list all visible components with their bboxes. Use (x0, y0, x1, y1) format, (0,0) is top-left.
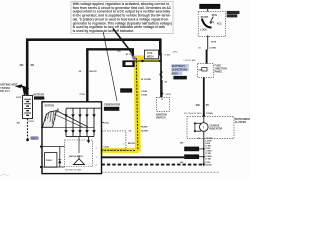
leader line thin to generator (103, 31, 117, 101)
node dot right of mega fuse (159, 60, 161, 62)
svg-text:S878: S878 (211, 42, 217, 44)
svg-text:57 BK: 57 BK (205, 159, 211, 161)
rectifier diode columns (66, 108, 94, 136)
svg-text:BK/OR: BK/OR (128, 143, 135, 145)
pin labels under lamp (198, 138, 213, 140)
svg-text:RD: RD (31, 64, 35, 67)
regulator transistor (74, 159, 85, 165)
node on generator left edge (41, 126, 43, 128)
labels right of black box (141, 90, 148, 96)
svg-text:CHARGE: CHARGE (210, 125, 220, 128)
charge indicator lamp (194, 117, 208, 139)
stub box1 to wire (199, 148, 204, 150)
svg-text:SWITCH: SWITCH (227, 15, 237, 18)
svg-text:BK/OR: BK/OR (90, 71, 97, 73)
svg-text:AT 301: AT 301 (126, 53, 133, 56)
rectifier mid line (43, 126, 95, 128)
fusible link thick segment (206, 50, 208, 64)
svg-text:C1048: C1048 (141, 93, 148, 96)
generator black ref box (104, 107, 119, 111)
ignition switch bottom connector (207, 35, 209, 38)
battery (23, 95, 33, 118)
svg-text:C158: C158 (104, 123, 110, 125)
wire from hot box to ignition switch (207, 9, 209, 12)
svg-text:C 101: C 101 (164, 55, 170, 57)
heavy battery cable A (battery to junction box) (27, 40, 160, 95)
svg-text:GROUND IS CASE: GROUND IS CASE (65, 168, 82, 171)
wire ignition to fuse panel (207, 38, 209, 50)
rectifier bottom bus (66, 136, 94, 138)
watermark (0, 175, 9, 177)
fuse junction panel dashed box (198, 64, 214, 78)
svg-text:PANEL: PANEL (215, 71, 223, 74)
svg-text:W/O TACH W/ TACH: W/O TACH W/ TACH (184, 112, 202, 115)
svg-text:C152: C152 (29, 121, 35, 123)
svg-text:PK/BK: PK/BK (141, 127, 148, 129)
reference arrow (15, 84, 28, 95)
svg-text:I: I (203, 125, 204, 130)
mega fuse box (144, 50, 158, 59)
svg-text:LG/RD: LG/RD (209, 47, 216, 49)
node dots on ground wire (203, 148, 205, 150)
fusible link squiggle (160, 71, 162, 78)
svg-text:RUN: RUN (212, 15, 217, 17)
fuse symbol (202, 67, 207, 71)
svg-text:BK: BK (17, 122, 21, 124)
stub box2 to wire (199, 156, 204, 158)
arrowhead at wire bottom (202, 164, 205, 167)
svg-text:YE/WH: YE/WH (141, 131, 149, 133)
svg-text:C102: C102 (80, 94, 86, 96)
hot at all times box (ignition feed) (199, 4, 220, 9)
svg-text:GENERATOR: GENERATOR (104, 103, 120, 107)
field coil box (45, 153, 57, 168)
svg-text:ACC: ACC (217, 23, 222, 26)
svg-text:C190B: C190B (205, 156, 212, 158)
svg-text:INDICATOR: INDICATOR (210, 128, 223, 131)
node below blue box (26, 138, 29, 141)
charge indicator label (210, 125, 223, 131)
instrument cluster dashed box (187, 117, 234, 139)
svg-text:C270A: C270A (206, 112, 213, 115)
heavy battery cable B (junction to generator B+) (87, 49, 133, 102)
connector arrow on feed wire (160, 93, 164, 96)
yellow highlighted horizontal wire (junction to mega fuse) (134, 55, 163, 62)
right connector label stack (205, 141, 212, 167)
left labels on ground wire (180, 143, 184, 164)
node at field top wire (40, 146, 42, 148)
battery junction node (26, 94, 29, 97)
ignition switch arrow (210, 17, 213, 23)
svg-text:BATTERY: BATTERY (33, 93, 44, 96)
heavy ground strap solid (102, 156, 185, 158)
yellow highlighted horizontal wire to generator terminal (101, 148, 139, 153)
svg-text:S/RD: S/RD (173, 51, 178, 53)
black box under blue label (173, 76, 186, 80)
note text block (71, 1, 173, 33)
ignition switch dashed box (198, 12, 225, 37)
svg-text:STATOR: STATOR (45, 104, 55, 107)
svg-text:ON FENDER: ON FENDER (105, 109, 118, 111)
battery black ref box (34, 96, 46, 100)
svg-text:PK: PK (206, 105, 210, 107)
svg-text:57 BK: 57 BK (205, 145, 211, 147)
svg-text:MEGA: MEGA (147, 56, 154, 59)
svg-text:C151: C151 (166, 94, 172, 96)
svg-text:CLUSTER: CLUSTER (235, 121, 247, 124)
upper diodes (64, 115, 95, 118)
black reference box 1 (184, 147, 199, 152)
blue ground label box (30, 136, 39, 140)
labels on yellow vertical wire (129, 79, 152, 133)
svg-text:175A: 175A (147, 52, 153, 55)
field bottom wire (41, 166, 65, 168)
connector C158 dashed box (102, 131, 126, 150)
fuse junction panel label (215, 65, 227, 74)
svg-text:YSTEM: YSTEM (0, 86, 10, 90)
svg-text:57 BK: 57 BK (205, 153, 211, 155)
generator pin numbers (96, 148, 98, 167)
svg-text:C190A: C190A (205, 150, 212, 153)
svg-text:REGULATOR: REGULATOR (69, 155, 83, 158)
label under dashed box (156, 113, 167, 119)
wire label 968 PK (196, 105, 210, 107)
instrument cluster label (235, 118, 251, 124)
svg-text:HOT AT ALL: HOT AT ALL (185, 156, 197, 159)
svg-text:BOX: BOX (172, 71, 178, 75)
upper terminal stub (102, 122, 105, 124)
svg-text:LOCK: LOCK (200, 29, 207, 31)
wire fuse panel to cluster (203, 77, 205, 115)
ignition switch wiper arc (202, 19, 212, 28)
node at field bottom wire (40, 166, 42, 168)
svg-text:38 YE/WH: 38 YE/WH (141, 79, 152, 81)
rectifier top bus (66, 107, 102, 109)
svg-text:STARTER: STARTER (121, 90, 131, 93)
svg-text:SG/RD: SG/RD (205, 165, 212, 167)
field diode (58, 147, 61, 167)
svg-text:C158: C158 (104, 146, 110, 148)
wire in yellow vertical (136, 58, 138, 150)
svg-text:START: START (201, 16, 209, 19)
black callout bracket (122, 60, 134, 67)
ground wire below cluster (203, 139, 205, 166)
svg-text:10: 10 (161, 99, 163, 101)
regulator dashed box (65, 140, 93, 167)
leader line thick to junction (113, 29, 134, 56)
svg-text:HOT AT ALL: HOT AT ALL (185, 148, 197, 151)
lower diodes (64, 130, 95, 133)
black reference box 2 (184, 154, 199, 159)
wire label 38 BK/OR on cable B (79, 71, 97, 73)
regulator input line (78, 137, 80, 153)
internal ground (87, 137, 90, 143)
wire in yellow horizontal (134, 60, 162, 62)
svg-text:G100: G100 (205, 162, 211, 164)
generator box (42, 102, 102, 174)
node dot left of mega fuse (141, 60, 143, 62)
yellow highlighted vertical wire (A circuit) (134, 56, 141, 151)
svg-text:OFF: OFF (210, 22, 215, 24)
svg-text:OR, 13-1: OR, 13-1 (0, 90, 10, 93)
svg-text:IN ENGINE: IN ENGINE (35, 98, 46, 100)
svg-text:S175: S175 (16, 97, 22, 99)
starting motor system reference (0, 82, 18, 93)
field top wire (41, 146, 65, 148)
thick lower feed segment (161, 80, 163, 97)
svg-text:C STOP LAMP: C STOP LAMP (183, 59, 196, 62)
heavy ground strap dashed (102, 164, 204, 166)
dashed box under feed (junction detail) (156, 97, 169, 111)
svg-text:HOT AT ALL TIMES: HOT AT ALL TIMES (201, 6, 221, 9)
black reference box mid (120, 88, 132, 92)
svg-text:SWITCH: SWITCH (156, 117, 166, 120)
svg-text:300: 300 (19, 64, 24, 67)
purple junction node (132, 56, 136, 60)
battery junction box feed wire (160, 53, 162, 97)
stator windings (43, 108, 89, 127)
battery negative dashed wire (27, 119, 29, 140)
svg-text:FIELD: FIELD (46, 160, 53, 162)
wire label 300 RD (19, 64, 34, 67)
dashed wire in lower yellow to generator (101, 149, 136, 151)
blue battery junction box label (171, 64, 188, 75)
wire label 16 LG/RD (198, 47, 216, 49)
node at cluster entry (203, 114, 205, 116)
thin dashed ground bus (102, 171, 220, 173)
ignition switch positions (200, 15, 222, 31)
svg-text:C1048: C1048 (141, 90, 148, 93)
svg-text:HOT AT ALL: HOT AT ALL (174, 77, 186, 80)
ignition switch label (227, 11, 240, 18)
